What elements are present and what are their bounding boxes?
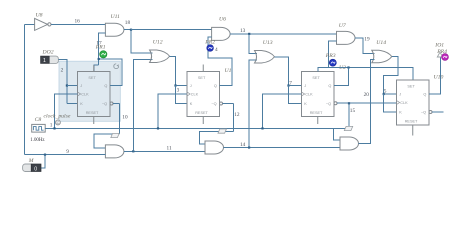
wire: ~Q1 stub bbox=[113, 103, 119, 105]
AND gate U9 bbox=[205, 141, 224, 154]
svg-text:19: 19 bbox=[364, 36, 370, 42]
svg-text:Q: Q bbox=[214, 84, 217, 88]
svg-text:1.00Hz: 1.00Hz bbox=[30, 138, 45, 143]
wire: U11 output to junction bbox=[124, 29, 131, 31]
wire: net 9 vertical from M bus up to inverter input bbox=[24, 24, 26, 154]
junction CLK2 on bus bbox=[157, 127, 159, 129]
svg-text:RESET: RESET bbox=[310, 111, 323, 115]
svg-text:K: K bbox=[399, 111, 402, 115]
svg-text:Q: Q bbox=[104, 84, 107, 88]
wire: U14 output jog to J4/K4 bbox=[384, 57, 398, 94]
probe PR2 bbox=[207, 45, 214, 52]
svg-text:4: 4 bbox=[215, 47, 218, 53]
junction clock pin bbox=[53, 127, 55, 129]
wire: net 15 down bbox=[348, 103, 350, 128]
probe PR4 bbox=[442, 54, 449, 61]
pin: RESET stub U1 bbox=[202, 117, 204, 125]
wire: net 11 riser to U12 bottom input bbox=[133, 59, 152, 151]
wire: net 16 inverter output to U11 bbox=[51, 23, 105, 25]
svg-text:11: 11 bbox=[167, 145, 172, 151]
inverter U8 bbox=[35, 18, 51, 30]
wire: net 13 tap to U13 top input bbox=[249, 34, 257, 54]
wire: U3 output riser to U14 bottom input bbox=[359, 60, 375, 144]
JK flip-flop U1 bbox=[187, 72, 223, 117]
OR gate U14 bbox=[372, 50, 392, 63]
svg-text:13: 13 bbox=[240, 28, 246, 34]
OR gate U13 bbox=[255, 51, 275, 64]
wire: net 17 U11 bottom input vertical bbox=[99, 33, 106, 65]
wire: CLK3 riser from clock bus bbox=[263, 94, 302, 128]
wire: hook to bottom AND U5 bbox=[94, 134, 119, 148]
svg-text:SET: SET bbox=[198, 76, 206, 80]
probe PR1 bbox=[100, 51, 107, 58]
wire: net 4 Q2 to U6 bottom input bbox=[208, 37, 232, 85]
svg-text:clock_pulse: clock_pulse bbox=[44, 114, 71, 120]
svg-text:~Q: ~Q bbox=[326, 102, 331, 106]
svg-text:K: K bbox=[304, 102, 307, 106]
wire: inverter input stub bbox=[25, 23, 35, 25]
svg-text:18: 18 bbox=[125, 20, 131, 26]
svg-text:U6: U6 bbox=[219, 17, 226, 23]
svg-text:3: 3 bbox=[177, 88, 180, 94]
wire: net 2 from DO2 to J/K of U4 bbox=[58, 60, 67, 104]
svg-text:U14: U14 bbox=[376, 40, 386, 46]
svg-text:RESET: RESET bbox=[86, 111, 99, 115]
wire: CLK1 riser from clock bus bbox=[55, 94, 78, 128]
wire: J pin U4 bbox=[67, 85, 78, 87]
svg-text:U8: U8 bbox=[36, 13, 43, 19]
svg-text:2: 2 bbox=[61, 68, 64, 74]
wire: hook to bottom AND U3 bbox=[334, 128, 349, 140]
wire: CLK2 riser from clock bus bbox=[158, 94, 187, 128]
junction J3 bbox=[287, 84, 289, 86]
junction net 14 bbox=[248, 146, 250, 148]
junction Q1 hook on net 17 bbox=[98, 58, 100, 60]
AND gate U11 bbox=[105, 23, 123, 36]
svg-text:J: J bbox=[80, 84, 82, 88]
svg-text:RESET: RESET bbox=[195, 111, 208, 115]
svg-text:SET: SET bbox=[407, 85, 415, 89]
AND gate U5 bbox=[105, 145, 123, 158]
svg-text:PR3: PR3 bbox=[325, 53, 336, 59]
wire: net 14 riser to U13 bottom input bbox=[249, 60, 257, 148]
svg-text:J: J bbox=[304, 84, 306, 88]
svg-text:CLK: CLK bbox=[305, 93, 313, 97]
JK flip-flop U2 bbox=[302, 72, 338, 117]
svg-text:U12: U12 bbox=[153, 39, 163, 45]
junction at J input U4 bbox=[66, 84, 68, 86]
wire: U7 output net 19 to U14 top input bbox=[355, 38, 375, 54]
wire: net 12 down bbox=[232, 104, 234, 132]
wire: J pin U1 bbox=[176, 85, 188, 87]
pin: RESET stub U4 bbox=[93, 117, 95, 125]
svg-text:C8: C8 bbox=[35, 117, 42, 123]
connector IO1 bbox=[437, 52, 442, 57]
junction J4 bbox=[383, 93, 385, 95]
wire: K drop U10 bbox=[384, 94, 397, 112]
svg-text:15: 15 bbox=[350, 108, 356, 114]
wire: K drop U1 bbox=[176, 86, 188, 104]
wire: net 9 bottom bus bbox=[25, 154, 106, 156]
wire: U6 output net 13 bbox=[230, 33, 336, 35]
wire: ~Q2 stub bbox=[223, 103, 234, 105]
junction J2 bbox=[174, 84, 176, 86]
wire: net 8 horizontal to SET of U10 bbox=[329, 68, 413, 81]
AND gate U6 bbox=[212, 27, 231, 40]
wire: M key to bus bbox=[41, 155, 45, 168]
svg-text:CLK: CLK bbox=[191, 93, 199, 97]
svg-text:U11: U11 bbox=[111, 14, 121, 20]
wire: J pin U2 bbox=[289, 85, 302, 87]
svg-text:~Q: ~Q bbox=[211, 102, 216, 106]
OR gate U12 bbox=[150, 50, 170, 63]
junction Q3 hook on net 8 bbox=[347, 66, 349, 68]
svg-text:IO1: IO1 bbox=[434, 42, 444, 48]
wire: hook to bottom AND U9 bbox=[200, 132, 234, 145]
indicator DO2 bbox=[41, 56, 59, 64]
wire: U9 output net 14 bbox=[224, 147, 341, 149]
svg-text:Q: Q bbox=[328, 84, 331, 88]
svg-text:SET: SET bbox=[312, 76, 320, 80]
svg-text:CLK: CLK bbox=[81, 93, 89, 97]
junction net 18 bbox=[130, 29, 132, 31]
wire: U5 output net 11 bbox=[124, 150, 205, 152]
wire: J pin U10 bbox=[384, 93, 397, 95]
junction CLK3 on bus bbox=[261, 127, 263, 129]
junction net 13 bbox=[248, 33, 250, 35]
wire: Q1 hook to net 17 bbox=[99, 59, 122, 86]
wire: jog to SET of U4 bbox=[94, 65, 99, 71]
wire: K pin U4 bbox=[67, 103, 78, 105]
svg-text:K: K bbox=[190, 102, 193, 106]
svg-text:CLK: CLK bbox=[400, 101, 408, 105]
svg-text:U7: U7 bbox=[339, 23, 347, 29]
svg-text:PR1: PR1 bbox=[95, 45, 106, 51]
JK flip-flop U4 (selected) bbox=[78, 72, 114, 117]
pin: RESET stub U10 bbox=[412, 125, 414, 136]
wire: net 18 tap down to U12 top input bbox=[131, 30, 153, 53]
AND gate U3 bbox=[340, 137, 359, 150]
pin: ~Q stub U10 bbox=[432, 111, 444, 113]
wire: U7 bottom input from PR3 net bbox=[329, 41, 337, 67]
svg-text:U10: U10 bbox=[434, 75, 444, 81]
JK flip-flop U10 bbox=[397, 80, 433, 125]
probe PR3 bbox=[329, 59, 336, 66]
svg-text:9: 9 bbox=[66, 149, 69, 155]
junction net 15 bbox=[348, 102, 350, 104]
selection highlight around U4 flip-flop bbox=[59, 61, 120, 121]
AND gate U7 bbox=[337, 31, 356, 44]
svg-text:20: 20 bbox=[364, 92, 370, 98]
svg-text:~Q: ~Q bbox=[102, 102, 107, 106]
wire: net 18 to U6 top input bbox=[131, 29, 212, 31]
pin: SET stub U1 bbox=[202, 65, 204, 72]
svg-text:12: 12 bbox=[234, 112, 240, 118]
svg-text:RESET: RESET bbox=[405, 120, 418, 124]
pin: RESET stub U2 bbox=[317, 117, 319, 125]
svg-text:16: 16 bbox=[75, 19, 81, 25]
wire: U12 output to J2/K2 bbox=[170, 56, 176, 85]
pin: SET stub U4 bbox=[93, 65, 95, 71]
net tag stage 3 bbox=[344, 126, 352, 130]
svg-text:M: M bbox=[28, 158, 34, 164]
selection corner handle bbox=[114, 64, 119, 69]
wire: U13 output to J3/K3 bbox=[275, 57, 289, 86]
svg-text:DO2: DO2 bbox=[42, 49, 54, 55]
svg-text:K: K bbox=[80, 102, 83, 106]
svg-text:1: 1 bbox=[43, 58, 46, 64]
svg-text:U2: U2 bbox=[339, 65, 346, 71]
net tag stage 2 bbox=[218, 129, 226, 133]
svg-text:J: J bbox=[399, 93, 401, 97]
svg-text:U13: U13 bbox=[263, 40, 273, 46]
svg-text:SET: SET bbox=[88, 76, 96, 80]
svg-text:Q: Q bbox=[423, 93, 426, 97]
junction at M key bbox=[44, 154, 46, 156]
junction net 11 bbox=[132, 150, 134, 152]
net tag stage 1 bbox=[111, 133, 119, 137]
wire: clock bus net 1 bbox=[45, 127, 349, 129]
wire: net 20 ~Q3 to CLK of U10 bbox=[337, 102, 397, 104]
wire: K drop U2 bbox=[289, 86, 302, 104]
svg-text:10: 10 bbox=[122, 114, 128, 120]
wire: net 10 down bbox=[118, 104, 120, 135]
svg-text:0: 0 bbox=[34, 166, 37, 172]
probe gray on clock riser bbox=[55, 120, 60, 125]
wire: Q4 up to IO1 bbox=[429, 57, 440, 94]
key M (digital constant 0) bbox=[23, 164, 41, 172]
clock source C8 bbox=[32, 124, 46, 132]
wire: SET U2 jog to net 8 bbox=[318, 68, 329, 72]
svg-text:J: J bbox=[190, 84, 192, 88]
svg-text:U1: U1 bbox=[225, 68, 232, 74]
svg-text:14: 14 bbox=[240, 142, 246, 148]
wire: Q3 hook bbox=[334, 68, 349, 86]
svg-text:~Q: ~Q bbox=[421, 111, 426, 115]
svg-text:1: 1 bbox=[50, 122, 53, 128]
